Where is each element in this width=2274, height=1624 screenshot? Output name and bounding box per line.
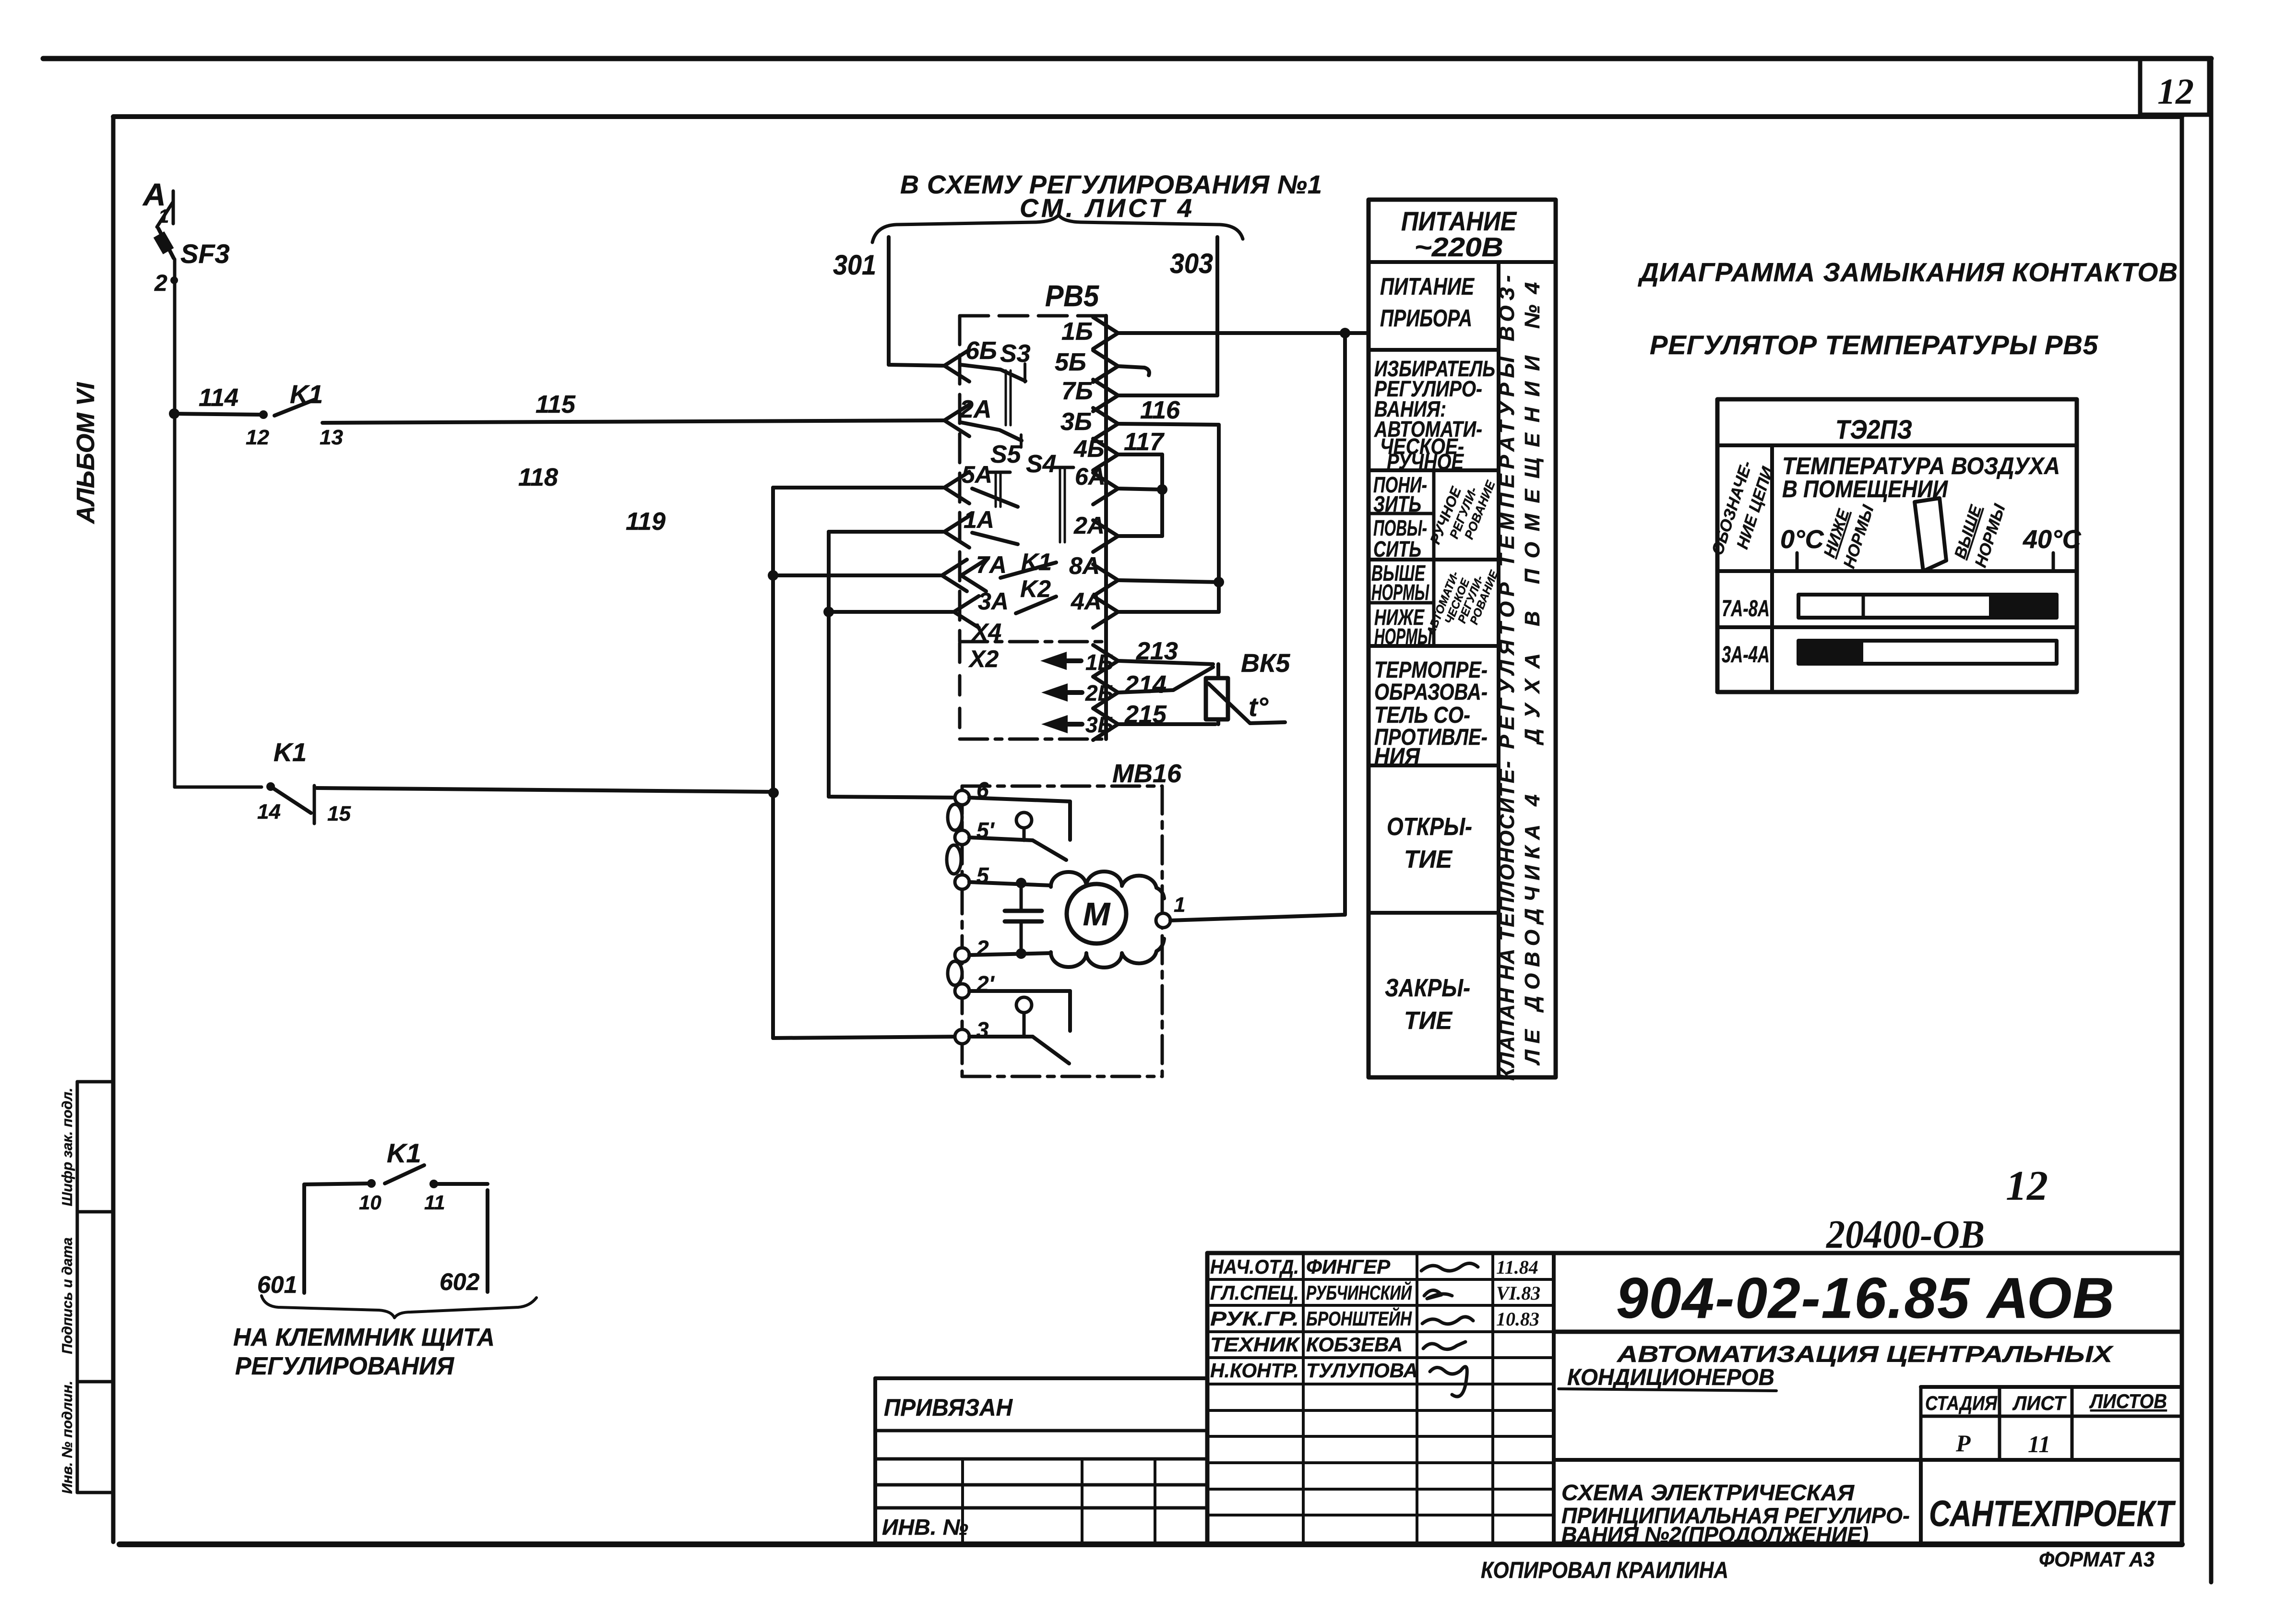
contact at 5A — [972, 489, 1018, 507]
svg-text:СМ. ЛИСТ 4: СМ. ЛИСТ 4 — [1020, 194, 1195, 223]
svg-text:ПРИБОРА: ПРИБОРА — [1380, 305, 1472, 332]
node: capacitor bottom — [1016, 948, 1026, 959]
svg-text:12: 12 — [246, 426, 269, 449]
svg-text:САНТЕХПРОЕКТ: САНТЕХПРОЕКТ — [1929, 1493, 2176, 1534]
BK5 diagonal t-symbol — [1208, 683, 1285, 723]
svg-text:СХЕМА ЭЛЕКТРИЧЕСКАЯ: СХЕМА ЭЛЕКТРИЧЕСКАЯ — [1561, 1480, 1855, 1505]
svg-text:РЕГУЛЯТОР ТЕМПЕРАТУРЫ РВ5: РЕГУЛЯТОР ТЕМПЕРАТУРЫ РВ5 — [1650, 330, 2098, 360]
MB16 terminal 2 — [955, 948, 969, 962]
wire terminal 2 to motor — [969, 953, 1051, 955]
title block outline — [1207, 1251, 2182, 1255]
svg-text:11.84: 11.84 — [1496, 1256, 1538, 1278]
svg-text:10.83: 10.83 — [1496, 1308, 1539, 1330]
svg-text:ОБРАЗОВА-: ОБРАЗОВА- — [1374, 680, 1488, 705]
svg-text:14: 14 — [257, 800, 281, 824]
svg-text:МВ16: МВ16 — [1112, 759, 1182, 788]
border: top outer line — [43, 56, 2211, 61]
border: right outer line — [2209, 59, 2214, 1582]
svg-text:КЛАПАН НА ТЕПЛОНОСИТЕ-: КЛАПАН НА ТЕПЛОНОСИТЕ- — [1495, 760, 1519, 1081]
svg-text:11: 11 — [424, 1191, 445, 1214]
svg-text:119: 119 — [626, 508, 666, 536]
wire 303 — [1215, 237, 1219, 395]
terminal 3A — [954, 596, 979, 628]
svg-text:ОТКРЫ-: ОТКРЫ- — [1387, 813, 1472, 841]
svg-text:2: 2 — [976, 936, 989, 961]
svg-text:13: 13 — [320, 426, 343, 449]
jumper 6-5prime — [948, 804, 962, 830]
орган box — [1919, 1460, 1923, 1544]
X2 row 3B/215 — [1041, 715, 1068, 733]
wire terminal 1 to riser — [1170, 915, 1345, 920]
svg-text:11: 11 — [2028, 1431, 2050, 1457]
contact at 1A — [972, 533, 1018, 544]
svg-text:602: 602 — [440, 1268, 480, 1295]
wire 115 — [322, 420, 944, 423]
thermistor BK5 — [1216, 664, 1220, 678]
TE2P3 row divider — [1717, 569, 2077, 573]
svg-text:904-02-16.85 АОВ: 904-02-16.85 АОВ — [1616, 1266, 2115, 1330]
wire 117 — [1118, 453, 1162, 456]
jumper 2-2prime — [948, 961, 962, 985]
row понизить — [1369, 512, 1434, 515]
RV5 dashed border top — [960, 314, 1106, 318]
svg-text:ФИНГЕР: ФИНГЕР — [1306, 1255, 1391, 1278]
S3 actuator link — [1005, 370, 1007, 425]
svg-text:K2: K2 — [1020, 575, 1051, 602]
wire: SF3 down to junction — [173, 259, 177, 787]
MB16 terminal 6 — [955, 790, 969, 805]
terminal 5A — [944, 472, 969, 503]
wire 2A right — [1118, 534, 1162, 538]
motor M winding top — [1051, 872, 1164, 898]
svg-text:K1: K1 — [387, 1138, 421, 1168]
svg-text:3А: 3А — [978, 588, 1009, 615]
svg-text:КОБЗЕВА: КОБЗЕВА — [1306, 1333, 1403, 1356]
svg-text:РЕГУЛИРОВАНИЯ: РЕГУЛИРОВАНИЯ — [235, 1352, 454, 1380]
svg-text:114: 114 — [199, 384, 238, 412]
motor M winding bottom — [1051, 939, 1164, 967]
svg-text:7А: 7А — [976, 551, 1007, 578]
underbrace — [262, 1296, 536, 1318]
svg-text:VI.83: VI.83 — [1496, 1282, 1540, 1304]
node: capacitor top — [1016, 878, 1026, 888]
svg-text:АЛЬБОМ VI: АЛЬБОМ VI — [72, 382, 100, 525]
wire 214 rises to BK5 — [1118, 667, 1213, 693]
MB16 upper limit switch — [969, 798, 1070, 801]
row ниже нормы — [1369, 644, 1499, 648]
svg-text:301: 301 — [833, 250, 876, 281]
svg-text:2: 2 — [154, 271, 167, 296]
привязан grid — [875, 1457, 1207, 1461]
wire 7A to vertical A — [773, 573, 941, 577]
wire terminal 5 to motor — [969, 882, 1051, 885]
svg-text:РУЧНОЕ: РУЧНОЕ — [1387, 449, 1464, 474]
stage/sheet grid — [1921, 1385, 2182, 1389]
svg-text:SF3: SF3 — [180, 239, 230, 269]
stub wire 5B — [1118, 366, 1149, 375]
terminal 6B with S3 — [944, 350, 969, 382]
svg-text:118: 118 — [518, 464, 558, 491]
motor M — [1067, 884, 1126, 943]
svg-text:12: 12 — [2157, 72, 2194, 112]
contact S3 — [961, 365, 1025, 381]
svg-text:214: 214 — [1124, 671, 1167, 699]
MB16 terminal 5' — [955, 830, 969, 845]
svg-text:5А: 5А — [962, 461, 992, 488]
svg-text:115: 115 — [536, 391, 576, 418]
svg-text:t°: t° — [1249, 692, 1269, 722]
RV5 bottom dash-dot — [960, 738, 1106, 741]
wire: vertical A (118/7A feeder) — [771, 488, 775, 1038]
signatures squiggles — [1421, 1263, 1478, 1271]
border: main frame — [113, 114, 2182, 119]
node: 7A junction — [768, 570, 778, 581]
svg-text:4Б: 4Б — [1073, 435, 1104, 462]
svg-text:НОРМЫ: НОРМЫ — [1374, 624, 1432, 649]
setpoint parallelogram — [1915, 498, 1946, 571]
svg-text:2А: 2А — [959, 395, 991, 423]
node: motor riser junction — [1340, 328, 1350, 338]
terminal 1 — [1156, 913, 1170, 928]
wire: A to SF3 — [157, 202, 173, 227]
svg-text:ФОРМАТ А3: ФОРМАТ А3 — [2039, 1548, 2155, 1571]
wire 1B to supply table — [1118, 331, 1368, 335]
TE2P3 table frame — [1717, 399, 2077, 692]
svg-text:СТАДИЯ: СТАДИЯ — [1925, 1392, 1998, 1414]
svg-text:Х4: Х4 — [971, 619, 1001, 645]
wire: 15 to vertical A — [317, 788, 773, 792]
svg-text:РУК.ГР.: РУК.ГР. — [1210, 1307, 1299, 1330]
contact K1 (12-13) — [259, 410, 268, 419]
svg-text:303: 303 — [1170, 248, 1213, 279]
svg-text:3Б: 3Б — [1060, 408, 1092, 436]
wire 116 — [1118, 424, 1219, 425]
svg-text:ИНВ. №: ИНВ. № — [882, 1515, 968, 1540]
row повысить — [1369, 558, 1499, 561]
node: 3A junction — [823, 607, 834, 617]
svg-text:3А-4А: 3А-4А — [1722, 642, 1770, 668]
svg-text:2Б: 2Б — [1085, 681, 1113, 705]
svg-text:ЛЕ ДОВОДЧИКА 4: ЛЕ ДОВОДЧИКА 4 — [1521, 788, 1544, 1065]
svg-text:10: 10 — [359, 1191, 381, 1214]
wire 7B to 303 — [1118, 394, 1217, 397]
wire: vertical B elbow to MB16 terminal 6 — [829, 797, 960, 798]
row избиратель — [1369, 468, 1499, 472]
svg-text:ЛИСТОВ: ЛИСТОВ — [2089, 1390, 2167, 1412]
svg-text:3Б: 3Б — [1085, 712, 1113, 737]
row открытие — [1369, 911, 1499, 915]
wire 119 — [829, 530, 943, 534]
svg-text:117: 117 — [1124, 428, 1165, 456]
terminal 8A — [1093, 564, 1118, 596]
wire 602 — [486, 1190, 489, 1292]
svg-text:КОПИРОВАЛ КРАИЛИНА: КОПИРОВАЛ КРАИЛИНА — [1481, 1558, 1728, 1583]
svg-text:6Б: 6Б — [965, 337, 997, 365]
svg-text:ГЛ.СПЕЦ.: ГЛ.СПЕЦ. — [1210, 1281, 1299, 1304]
RV5 dashed border left — [958, 316, 962, 641]
wire 6A — [1118, 489, 1162, 490]
MB16 terminal 2' — [955, 984, 969, 998]
terminal 7A (double arrow) — [942, 560, 967, 591]
svg-text:0°С: 0°С — [1780, 525, 1824, 554]
svg-text:7Б: 7Б — [1061, 377, 1093, 405]
row питание прибора — [1369, 348, 1499, 352]
svg-text:~220В: ~220В — [1415, 232, 1503, 262]
svg-text:5Б: 5Б — [1055, 348, 1086, 376]
svg-text:K1: K1 — [290, 380, 323, 409]
svg-text:НОРМЫ: НОРМЫ — [1371, 580, 1429, 605]
svg-text:ТЭ2ПЗ: ТЭ2ПЗ — [1835, 414, 1912, 444]
svg-text:ЗИТЬ: ЗИТЬ — [1373, 491, 1421, 516]
signature grid — [1207, 1278, 1554, 1281]
svg-text:116: 116 — [1140, 396, 1180, 424]
wire 4A — [1118, 610, 1219, 614]
sheet number box top right — [2140, 59, 2209, 115]
svg-text:12: 12 — [2006, 1163, 2048, 1209]
TE2P3 header columns — [1770, 445, 1774, 692]
node: 6A junction — [1157, 484, 1167, 495]
wire 116 drop to 8A — [1217, 425, 1221, 612]
X4/X2 connector divider — [960, 640, 1106, 644]
wire 114 — [175, 414, 262, 415]
svg-text:НАЧ.ОТД.: НАЧ.ОТД. — [1210, 1255, 1299, 1278]
MB16 dash-dot border — [962, 785, 1162, 788]
svg-text:Н.КОНТР.: Н.КОНТР. — [1210, 1359, 1299, 1382]
row выше нормы — [1369, 601, 1434, 605]
wire 301 to 6B — [889, 365, 944, 366]
schema name cell — [1554, 1458, 2182, 1462]
wire: vertical A elbow to MB16 terminal 3 — [773, 1037, 960, 1038]
svg-text:20400-ОВ: 20400-ОВ — [1825, 1212, 1985, 1257]
svg-text:КОНДИЦИОНЕРОВ: КОНДИЦИОНЕРОВ — [1567, 1365, 1774, 1390]
svg-text:ПИТАНИЕ: ПИТАНИЕ — [1380, 273, 1475, 300]
wire 8A — [1118, 580, 1219, 582]
left margin strip boxes — [76, 1082, 79, 1493]
wire 118 — [773, 486, 943, 490]
привязан box — [875, 1376, 1207, 1380]
svg-text:ВК5: ВК5 — [1241, 649, 1290, 678]
svg-text:НА КЛЕММНИК ЩИТА: НА КЛЕММНИК ЩИТА — [233, 1324, 495, 1351]
svg-text:3: 3 — [976, 1017, 989, 1042]
contact at 2A — [961, 422, 1022, 441]
svg-text:М: М — [1083, 896, 1111, 932]
wire riser to 1B — [1343, 333, 1347, 915]
svg-text:Подпись и дата: Подпись и дата — [60, 1237, 75, 1354]
MB16 terminal 3 — [955, 1029, 969, 1044]
X2 row 2B/214 — [1041, 683, 1068, 702]
svg-text:В ПОМЕЩЕНИИ: В ПОМЕЩЕНИИ — [1782, 476, 1948, 502]
sub column divider — [1432, 470, 1436, 646]
svg-text:Инв. № подлин.: Инв. № подлин. — [60, 1381, 75, 1494]
svg-text:ЛИСТ: ЛИСТ — [2012, 1392, 2067, 1414]
breaker SF3 — [158, 228, 174, 258]
svg-text:ТИЕ: ТИЕ — [1404, 846, 1453, 873]
svg-text:БРОНШТЕЙН: БРОНШТЕЙН — [1306, 1306, 1412, 1330]
svg-text:ПРИВЯЗАН: ПРИВЯЗАН — [884, 1394, 1013, 1421]
wire 601 — [302, 1184, 306, 1293]
capacitor C — [1020, 885, 1023, 911]
svg-text:40°С: 40°С — [2023, 525, 2082, 554]
svg-text:РУБЧИНСКИЙ: РУБЧИНСКИЙ — [1306, 1280, 1412, 1304]
svg-text:ДИАГРАММА ЗАМЫКАНИЯ КОНТАКТОВ: ДИАГРАММА ЗАМЫКАНИЯ КОНТАКТОВ — [1638, 257, 2178, 287]
jumper 5prime-5 — [947, 845, 961, 874]
svg-text:1А: 1А — [964, 506, 994, 533]
svg-text:1: 1 — [1174, 893, 1185, 917]
svg-text:Шифр зак. подл.: Шифр зак. подл. — [60, 1088, 75, 1206]
terminal 4A — [1093, 596, 1118, 628]
node: 116/8A junction — [1214, 577, 1224, 587]
signal table frame — [1369, 200, 1556, 1077]
svg-text:601: 601 — [257, 1271, 297, 1298]
wire 301 — [887, 237, 891, 365]
row термопреобразователь — [1369, 764, 1499, 767]
node: junction on vertical A — [768, 788, 779, 798]
svg-text:ТИЕ: ТИЕ — [1404, 1007, 1453, 1035]
svg-text:Р: Р — [1955, 1430, 1971, 1457]
wire 3A to vertical B — [829, 610, 952, 614]
node A tick — [172, 191, 175, 224]
node: junction wire 114 — [169, 408, 179, 419]
brace over 301/303 — [872, 215, 1243, 242]
svg-text:РЕГУЛЯТОР ТЕМПЕРАТУРЫ ВОЗ-: РЕГУЛЯТОР ТЕМПЕРАТУРЫ ВОЗ- — [1495, 270, 1519, 749]
svg-text:7А-8А: 7А-8А — [1722, 596, 1770, 621]
svg-text:АВТОМАТИЗАЦИЯ ЦЕНТРАЛЬНЫХ: АВТОМАТИЗАЦИЯ ЦЕНТРАЛЬНЫХ — [1617, 1342, 2114, 1367]
svg-text:1Б: 1Б — [1061, 318, 1093, 346]
X2 row 1B/213 — [1040, 652, 1067, 670]
table inner vertical — [1497, 262, 1500, 1077]
svg-text:ДУХА В ПОМЕЩЕНИИ №4: ДУХА В ПОМЕЩЕНИИ №4 — [1521, 272, 1544, 746]
svg-text:S4: S4 — [1026, 450, 1057, 478]
svg-text:ВАНИЯ №2(ПРОДОЛЖЕНИЕ): ВАНИЯ №2(ПРОДОЛЖЕНИЕ) — [1561, 1522, 1869, 1547]
wire 117 drop — [1160, 454, 1164, 536]
terminal 2A left with selector contact — [944, 405, 969, 436]
wire: vertical B (119/3A feeder) — [827, 532, 831, 797]
svg-text:Х2: Х2 — [968, 645, 999, 672]
svg-text:ТУЛУПОВА: ТУЛУПОВА — [1306, 1359, 1418, 1382]
terminal 1A — [944, 516, 969, 548]
MB16 terminal 5 — [955, 875, 969, 889]
contact K1 (14-15) — [266, 782, 275, 791]
svg-text:15: 15 — [327, 802, 351, 825]
svg-text:K1: K1 — [274, 738, 307, 767]
MB16 lower limit switch — [969, 989, 1070, 993]
svg-text:S5: S5 — [990, 441, 1022, 468]
svg-text:СИТЬ: СИТЬ — [1373, 537, 1421, 561]
svg-text:РВ5: РВ5 — [1045, 280, 1099, 313]
svg-text:ТЕХНИК: ТЕХНИК — [1210, 1333, 1300, 1356]
RV5 terminal line right — [1104, 316, 1108, 739]
svg-text:НИЯ: НИЯ — [1374, 744, 1420, 769]
svg-text:ЗАКРЫ-: ЗАКРЫ- — [1385, 974, 1470, 1002]
wire: left vertical elbow to K1 14-15 — [175, 786, 262, 789]
